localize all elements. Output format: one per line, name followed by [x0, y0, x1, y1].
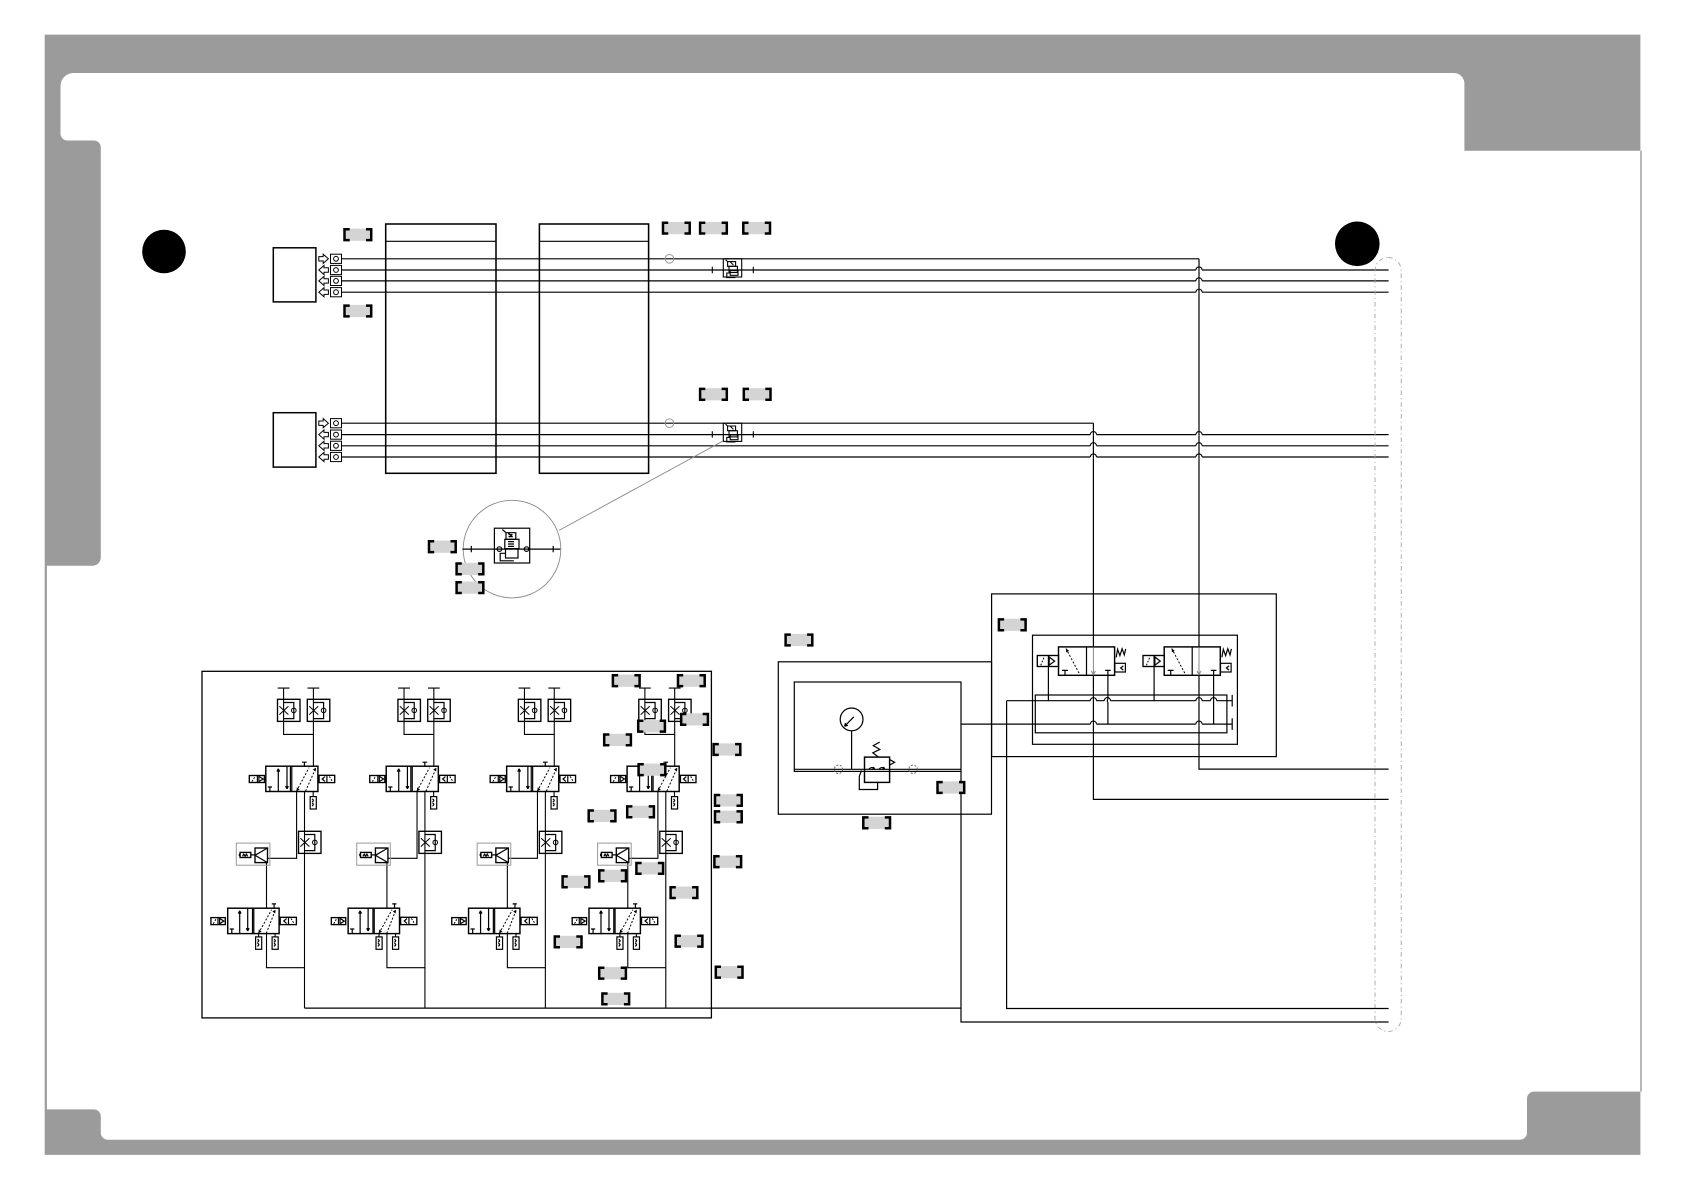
rod end bar lower: [1231, 718, 1233, 730]
frame: top gray bar with top-right block: [45, 35, 1641, 151]
label tag 27: [598, 870, 627, 882]
connector X1 (upper): [273, 248, 316, 302]
label tag 11: [785, 634, 814, 646]
label tag 26: [636, 862, 665, 874]
label tag 24: [714, 794, 743, 806]
label tag 25: [714, 811, 743, 823]
wire lower line 4: [342, 456, 1389, 458]
label tag 23: [626, 806, 655, 818]
label tag 16: [677, 675, 706, 687]
label tag 2: [344, 305, 373, 317]
label tag 34: [602, 993, 631, 1005]
pin terminal row 4 (arrow left): [319, 288, 342, 297]
label tag 1: [344, 229, 373, 241]
pin terminal row 4 (arrow left): [319, 452, 342, 461]
enclosure box C (air supply outer): [778, 662, 991, 814]
V1 outlet drop wire: [1107, 675, 1109, 724]
node circle on upper line 1: [665, 254, 674, 263]
pin terminal row 2 (arrow left): [319, 265, 342, 274]
label tag 5: [742, 222, 771, 234]
label tag 3: [662, 222, 691, 234]
wire upper line 3: [342, 280, 1389, 282]
pin arrows and terminals, lower connector: [319, 419, 342, 462]
label tag 8: [428, 541, 457, 553]
V2 pilot drop wire: [1153, 667, 1155, 701]
valve group 3 (cyl port controls, 5/2 valves): [452, 688, 576, 1008]
manifold boundary capsule (dash-dot): [1375, 258, 1401, 1032]
pin terminal row 2 (arrow left): [319, 430, 342, 439]
label tag 31: [554, 936, 583, 948]
label tag 10: [456, 582, 485, 594]
port circle right: [909, 765, 917, 773]
wire upper line 2: [342, 269, 1389, 271]
label tag 33: [598, 967, 627, 979]
pin terminal row 3 (arrow left): [319, 276, 342, 285]
inline filter-regulator FR2 (lower): [712, 423, 753, 442]
regulator drain: [859, 771, 877, 790]
supply rail along manifold bottom: [305, 1007, 962, 1009]
label tag 21: [638, 764, 667, 776]
cylinder block CY1 head line: [386, 240, 496, 242]
pin terminal row 1 (arrow right): [319, 419, 342, 428]
wire lower line 2: [342, 434, 1389, 436]
wire drop from lower line 1 to valve V1 and out to manifold: [1093, 423, 1388, 799]
label tag 22: [588, 810, 617, 822]
label tag 19: [603, 734, 632, 746]
label tag 17: [637, 720, 666, 732]
wire lower line 3: [342, 445, 1389, 447]
V1 pilot drop wire: [1047, 667, 1049, 701]
rod end bar upper: [1231, 695, 1233, 707]
wire hop arcs at crossings: [1090, 267, 1216, 725]
wire: rail upper down to manifold line B1: [1007, 701, 1389, 1009]
regulator spring: [873, 742, 880, 757]
wire upper line 1: [342, 258, 1200, 260]
pin arrows and terminals, upper connector: [319, 254, 342, 297]
bullet dot right: [1335, 222, 1380, 267]
valve group 1 (cyl port controls, 5/2 valves): [211, 688, 335, 1008]
pin terminal row 1 (arrow right): [319, 254, 342, 263]
label tag 7: [743, 388, 772, 400]
pilot valve V2 (3/2): [1143, 647, 1231, 724]
clamp cylinder body: [1035, 695, 1227, 733]
label tag 14: [862, 817, 891, 829]
wire drop from upper line 1 to valve V2 and out to manifold: [1199, 259, 1389, 769]
label tag 9: [456, 563, 485, 575]
pressure regulator R1: [865, 757, 890, 782]
valve manifold box (bottom-left): [202, 671, 711, 1018]
detail filter-regulator FR2 magnified: [462, 528, 560, 563]
frame: right thin gray line: [1640, 151, 1641, 1092]
label tag 30: [670, 887, 699, 899]
inline filter-regulator FR1 (upper): [712, 259, 753, 278]
wire lower line 1: [342, 422, 1094, 424]
wire: rail lower down to manifold line B2: [961, 771, 1389, 1022]
enclosure box B (regulator unit): [794, 682, 961, 771]
enclosure box A (valve-cylinder unit): [1033, 635, 1238, 744]
cylinder block CY2: [539, 224, 648, 473]
valve group 2 (cyl port controls, 5/2 valves): [331, 688, 455, 1008]
pilot valve V1 (3/2): [1037, 647, 1125, 724]
label tag 32: [675, 935, 704, 947]
label tag 13: [937, 781, 966, 793]
label tag 18: [680, 713, 709, 725]
cylinder block CY1: [386, 224, 496, 473]
label tag 28: [562, 876, 591, 888]
V2 outlet drop wire: [1213, 675, 1215, 724]
regulator supply line: [794, 768, 961, 770]
connector X2 (lower): [273, 413, 316, 467]
label tag 35: [715, 966, 744, 978]
label tag 29: [714, 856, 743, 868]
rod rail lower: [961, 723, 1232, 725]
pin terminal row 3 (arrow left): [319, 441, 342, 450]
detail leader line: [559, 441, 722, 530]
detail circle: [463, 500, 561, 598]
port circle left: [834, 765, 842, 773]
rod rail upper: [1007, 700, 1233, 702]
gauge stem wire: [851, 731, 853, 770]
pressure gauge G1: [840, 708, 863, 731]
wire upper line 4: [342, 291, 1389, 293]
label tag 15: [612, 675, 641, 687]
node circle on lower line 1: [665, 419, 674, 428]
label tag 4: [699, 222, 728, 234]
cylinder block CY2 head line: [539, 240, 648, 242]
label tag 6: [699, 388, 728, 400]
enclosure box D (valve unit outer): [992, 594, 1277, 757]
label tag 20: [713, 743, 742, 755]
label tag 12: [998, 619, 1027, 631]
valve group 4 (cyl port controls, 5/2 valves): [572, 688, 696, 1008]
bullet dot left: [142, 230, 186, 274]
